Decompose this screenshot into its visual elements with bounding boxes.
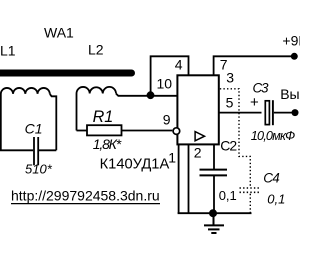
svg-text:1: 1 xyxy=(168,150,176,166)
svg-text:К140УД1А: К140УД1А xyxy=(100,156,170,172)
wire dotted C4 to ground xyxy=(249,194,251,213)
output terminal node xyxy=(292,109,299,116)
wire pin7 branch to +9V xyxy=(214,56,294,75)
inductor L2 xyxy=(77,87,178,131)
capacitor C1 xyxy=(0,137,56,165)
svg-text:0,1: 0,1 xyxy=(219,188,237,203)
capacitor C4 (dashed) xyxy=(240,188,261,192)
op-amp triangle xyxy=(195,132,204,141)
svg-text:http://299792458.3dn.ru: http://299792458.3dn.ru xyxy=(11,188,160,204)
svg-text:L1: L1 xyxy=(0,43,16,59)
capacitor C2 xyxy=(200,144,228,213)
svg-text:Вых: Вых xyxy=(280,86,300,102)
svg-text:1,8К*: 1,8К* xyxy=(93,136,122,152)
svg-text:3: 3 xyxy=(226,70,234,86)
wire ground bus xyxy=(178,212,252,214)
inductor L1 xyxy=(1,88,57,150)
resistor R1 xyxy=(77,125,173,135)
ground xyxy=(204,213,224,233)
svg-text:R1: R1 xyxy=(93,108,114,126)
svg-text:10,0мкФ: 10,0мкФ xyxy=(251,129,295,143)
antenna WA1 ferrite rod xyxy=(0,70,132,77)
svg-text:0,1: 0,1 xyxy=(267,191,285,206)
node junction ground xyxy=(209,209,217,217)
capacitor C3 polarized xyxy=(265,100,292,125)
wire pin4 branch xyxy=(151,56,189,96)
svg-text:9: 9 xyxy=(163,112,171,128)
wire pin5 output xyxy=(219,112,262,114)
svg-text:L2: L2 xyxy=(88,42,104,58)
svg-text:+9В: +9В xyxy=(282,33,300,49)
url underline xyxy=(11,203,160,205)
inverting input circle pin 9 xyxy=(173,128,180,135)
op-amp U1 К140УД1А xyxy=(173,75,219,144)
wire pin1 down xyxy=(178,144,180,213)
svg-text:C2: C2 xyxy=(220,138,237,154)
svg-text:5: 5 xyxy=(226,94,234,110)
node junction L2/pin10/pin4 xyxy=(147,91,155,99)
svg-text:10: 10 xyxy=(157,76,173,92)
svg-text:510*: 510* xyxy=(25,161,53,176)
svg-text:2: 2 xyxy=(194,144,202,160)
wire L2 to node xyxy=(116,94,177,96)
svg-text:C4: C4 xyxy=(263,170,279,185)
+9V terminal node xyxy=(291,53,298,60)
wire dotted pin3 to C4 xyxy=(220,89,251,187)
svg-text:WA1: WA1 xyxy=(44,25,74,41)
svg-text:+: + xyxy=(250,94,259,111)
svg-text:4: 4 xyxy=(175,56,183,72)
svg-text:C1: C1 xyxy=(25,120,43,136)
wire pin2 down xyxy=(188,144,190,213)
